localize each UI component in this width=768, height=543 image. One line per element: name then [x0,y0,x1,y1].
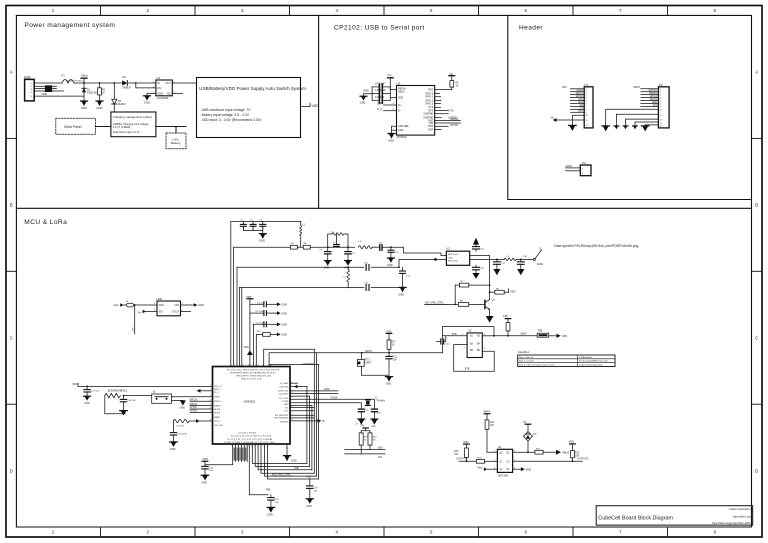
svg-text:P1/CLK/P7: P1/CLK/P7 [278,394,289,396]
svg-text:SPI_MISO/P11: SPI_MISO/P11 [275,415,289,417]
right arrow flag GND [557,334,568,338]
dashed wire charger to battery [156,126,186,128]
svg-text:TP0: TP0 [360,426,365,428]
ground at button [172,400,186,409]
svg-text:VDD: VDD [510,290,516,294]
svg-text:3: 3 [291,392,292,394]
svg-text:EN: EN [157,86,161,90]
svg-text:U2: U2 [446,246,450,250]
CTS wire [435,107,454,112]
svg-text:GND: GND [259,239,265,243]
Q1 collector vertical [489,256,491,300]
MCU chip U6 ASR6501 [213,362,315,444]
SUSPEND wire [435,115,457,119]
svg-text:C0B: C0B [562,334,567,338]
svg-text:BTB: BTB [452,333,457,336]
cap C3 [259,219,265,229]
svg-text:GND: GND [291,460,297,463]
svg-text:Vin: Vin [138,310,142,314]
svg-text:5V: 5V [523,421,526,424]
svg-text:4: 4 [241,446,242,448]
svg-text:GND: GND [282,304,288,307]
svg-text:SDI: SDI [159,311,163,314]
OUTPUT1 wire to U4 G pin [456,458,497,464]
U0TXD wire [435,123,461,127]
svg-text:GND: GND [267,514,273,517]
ground under CP2102 [388,134,395,143]
svg-text:KXB0T: KXB0T [364,362,372,364]
svg-text:Vbus: Vbus [81,74,88,78]
svg-text:RF1 Tant1: RF1 Tant1 [448,253,459,256]
MCU bottom: VDD flag [202,457,208,466]
svg-text:2: 2 [264,446,265,448]
shunt cap C8b [345,247,356,260]
inductor L1 vertical [300,222,306,248]
svg-text:SWDIO: SWDIO [190,404,198,406]
ground under C6 [324,261,331,270]
cap trio bottom rail [243,230,262,232]
cap C21 [386,353,398,376]
VDD flag above R17 [386,329,392,340]
cap row 3 pin wire [253,324,266,366]
svg-text:CTS: CTS [449,108,454,112]
net label ANT_PW_CTRL bottom [272,472,294,476]
inductor L3 horizontal [358,241,372,248]
svg-text:USB/Battery/VDD Power Supply A: USB/Battery/VDD Power Supply Auto Switch… [199,86,306,91]
diode D4 diamond [523,421,537,452]
svg-text:3: 3 [238,446,239,448]
svg-text:C: C [10,336,13,341]
svg-text:DSR: DSR [428,129,433,132]
ferrite bead FB1 on clock wire [537,331,549,338]
svg-text:2: 2 [210,389,211,391]
junction clock out [493,335,495,337]
junction node to charger [113,82,115,84]
net label ANT_PW_CTRL [425,301,448,305]
Q1 emitter to ground [486,309,494,322]
svg-text:B6U/P16: B6U/P16 [280,421,289,423]
svg-text:Header: Header [519,25,543,32]
svg-text:GND: GND [398,292,404,296]
svg-text:P3: P3 [582,161,586,165]
svg-text:XT32K: XT32K [330,397,337,399]
junction NRST node [361,352,363,354]
section titles [24,22,543,226]
right pin 4 wire [482,335,494,337]
svg-text:GND: GND [157,91,163,95]
svg-text:D_N: D_N [377,108,382,111]
svg-text:Solar Panel input: 11.7V: Solar Panel input: 11.7V [113,131,140,134]
svg-text:VDD: VDD [72,382,78,386]
ground small 3 [623,126,628,129]
junction L2 right [347,246,349,248]
P2 gnd wire 4 [635,122,658,126]
svg-text:4: 4 [268,365,269,367]
junction for EN branch [135,82,137,84]
junction under bead [134,304,136,306]
Solar Panel dashed box [56,118,96,134]
cap C2 [250,219,256,229]
svg-text:C5 10uF: C5 10uF [256,311,265,313]
wire ANT_SW_CTRL [425,303,459,305]
svg-text:Solar Panel: Solar Panel [64,125,82,129]
RTC crystal wire 2 [290,403,361,409]
wire VDD pin [390,97,396,99]
svg-text:P4_1 P4_0 VCC GND XT32K P3_7 P: P4_1 P4_0 VCC GND XT32K P3_7 P3_6 P3_5 P… [227,369,280,371]
clock out wire GBUF [494,335,537,337]
svg-text:GND1: GND1 [566,165,573,168]
inductor L7 row [174,419,213,428]
svg-text:5: 5 [243,446,244,448]
svg-text:GND: GND [282,312,288,315]
svg-text:GBUF: GBUF [520,333,527,336]
svg-text:6: 6 [210,407,211,409]
ground under C24 [201,475,209,484]
pin numbers X2 [464,333,487,349]
bundle vertical 5 [241,287,243,366]
svg-text:Step 3: 0.5B run? loop? / boot: Step 3: 0.5B run? loop? / boot? / user? [519,364,556,367]
svg-text:GND: GND [363,89,369,93]
svg-text:NC: NC [167,91,171,95]
svg-text:GND: GND [144,101,150,105]
svg-text:GND: GND [284,404,289,406]
svg-text:10K: 10K [454,454,459,456]
svg-text:C2_0 B2_1 P4 VD1: C2_0 B2_1 P4 VD1 [238,433,257,435]
pullup resistor R22 [368,431,377,450]
svg-text:FB0: FB0 [503,315,508,318]
svg-text:A: A [755,70,758,75]
svg-text:A: A [10,70,13,75]
FB resistor vertical with flag [503,315,511,337]
svg-text:R15: R15 [575,452,580,454]
LiPo Battery dashed box [166,133,186,149]
ground flag at cap bus [360,89,372,105]
svg-text:0: 0 [257,446,258,448]
svg-text:RF2 Tant2: RF2 Tant2 [448,259,459,262]
svg-text:GND: GND [282,324,288,327]
svg-text:GPIO8: GPIO8 [214,409,221,411]
cap C25 [268,495,280,508]
svg-text:OSC_DM: OSC_DM [214,425,223,427]
svg-text:Power management system: Power management system [24,22,115,29]
shunt cap C17 [398,266,411,287]
wire RFIO1 vertical [236,267,238,366]
svg-text:GND: GND [202,482,208,485]
svg-text:6: 6 [246,446,247,448]
svg-text:Battery: Battery [171,141,181,145]
wire C8 to corner [382,246,403,248]
wire ID from USB [34,90,63,92]
svg-text:NC: NC [373,439,377,441]
svg-text:P2: P2 [659,83,663,87]
wire L3 to C8 [372,246,380,248]
P3 wires [566,165,581,171]
svg-text:3: 3 [210,395,211,397]
svg-text:F1: F1 [62,73,66,77]
svg-text:VDD: VDD [244,346,249,349]
right pin stubs [435,93,440,95]
wire EN branch [136,83,156,88]
P1 ground [569,115,585,131]
svg-text:U0RX_C33: U0RX_C33 [278,391,289,393]
wire switch upper out to Q1 [470,255,490,257]
svg-text:XRES: XRES [214,397,220,399]
U0RXD wire [435,118,461,121]
VDD pull-up R15 [569,441,580,462]
LED VSS to GND flag [181,303,205,307]
bottom staircase wires [252,444,318,479]
svg-text:ANT_PW_CTRL: ANT_PW_CTRL [272,472,292,476]
load switch U4 [494,445,516,478]
svg-text:VDD: VDD [569,441,574,444]
cap C19 under L7 [170,421,187,442]
wire VBUS from USB [34,82,62,84]
shunt cap C12 [388,247,399,258]
load cap C22 [358,409,369,419]
svg-text:Charging management system: Charging management system [113,115,153,119]
vertical net label blobs [234,448,246,460]
decoupling cap C27 on VDD [84,386,100,397]
svg-text:10K: 10K [490,425,495,427]
P2 gnd wire 1 [606,109,659,126]
MCU left edge pin number ticks [210,385,211,422]
RST pull-up resistor R2 [435,72,460,90]
svg-text:C19 22uF: C19 22uF [177,433,187,435]
ferrite bead L6 [126,301,157,307]
D+ stub [377,102,396,105]
SDA wire [345,447,385,450]
svg-text:5: 5 [239,365,240,367]
svg-text:9: 9 [254,446,255,448]
ground under RF wire 2 end [398,287,406,296]
svg-text:USB: USB [24,75,32,79]
svg-text:GND REF: GND REF [398,125,409,128]
wire RFIO2 vertical [239,287,241,366]
svg-text:C4 1uF: C4 1uF [257,302,265,304]
MCU right edge pin number ticks [291,382,292,422]
ground large 1 [602,126,610,132]
svg-text:- Battery input voltage: 3.5 -: - Battery input voltage: 3.5 - 4.2V [200,113,250,117]
wire REGIN [390,89,396,91]
svg-text:VBUS: VBUS [398,90,405,93]
pull resistor R9 to VDD [489,288,516,294]
svg-text:NRST: NRST [633,86,640,89]
wire D2 to U1 [127,82,156,84]
SWD stub wires with labels [190,400,213,413]
VBAT flag [483,410,490,420]
svg-text:GND: GND [360,101,366,104]
svg-text:9: 9 [253,365,254,367]
svg-text:P3.4 CLK5: P3.4 CLK5 [279,398,290,400]
MCU bottom gnd pin [283,444,297,463]
svg-text:BG7208: BG7208 [498,474,508,478]
arrowhead on RF2 wire [433,258,437,262]
svg-text:L7 2mH: L7 2mH [176,426,184,428]
svg-text:GND: GND [398,129,404,132]
common mode choke L1 (black body) [45,85,57,92]
svg-text:1uF: 1uF [393,360,398,362]
ruler column ticks top [101,6,668,16]
RF rail wire [234,246,291,248]
svg-text:CAS2M05: CAS2M05 [157,96,169,100]
wire GND from USB [34,95,84,97]
svg-text:U4: U4 [498,445,502,449]
junction R7 leg [454,304,456,306]
ground under C25 [267,507,275,516]
pullup resistor R21 [359,431,368,454]
inductor L4 vertical between RF wires [343,266,349,288]
svg-text:SWCLK: SWCLK [214,401,222,403]
series cap C9b [379,242,383,250]
ground big under C28 [120,411,128,416]
LED DOUT stub [181,311,191,313]
svg-text:D: D [10,469,13,474]
svg-text:CubeCell Board Block Diagram: CubeCell Board Block Diagram [598,515,673,521]
RF switch U2 [446,246,469,265]
svg-text:MTT1: MTT1 [364,359,371,361]
svg-text:Vext: Vext [477,466,482,469]
resistor R6 [303,243,310,249]
svg-text:C28 104: C28 104 [127,400,136,402]
arrow flag into MCU pin 2 [197,389,213,393]
svg-text:C10 10uF: C10 10uF [375,89,386,92]
svg-text:GPIO.1: GPIO.1 [425,96,434,99]
svg-text:RST: RST [428,89,433,92]
wire R14 to U4 pin1 [487,451,497,453]
svg-text:GND: GND [448,257,453,259]
wire U1 NC stub [172,92,182,94]
svg-text:SWDIO: SWDIO [214,405,221,407]
connector P2 [658,83,669,128]
svg-text:1: 1 [210,385,211,387]
svg-text:FB0: FB0 [266,490,271,492]
left cap bus [371,87,373,100]
svg-text:GND: GND [388,139,394,143]
svg-text:htps:/heltec.org: htps:/heltec.org [733,515,751,519]
svg-text:GND: GND [386,383,392,386]
DTR wire [435,125,449,127]
wire node to D2 [100,82,123,84]
svg-text:Case-specific P/N:9Dxxty/URL9s: Case-specific P/N:9Dxxty/URL9sb_dxe/PCB9… [554,244,639,248]
I2C pullup flag [360,426,370,431]
svg-text:D2: D2 [122,75,126,79]
crystal block X2: outer top loop [443,327,495,353]
svg-text:U3: U3 [397,82,401,86]
ground under C29 [306,499,313,508]
svg-text:VDC: VDC [562,86,567,89]
svg-text:C4H_E33: C4H_E33 [280,386,290,388]
svg-text:VDD: VDD [203,457,209,461]
svg-text:ASR6501: ASR6501 [244,399,256,403]
wire down to D3 [113,83,115,99]
wire MCU top pin to right vertical A [264,349,315,366]
svg-text:VSS2 XO XI P3_1 C8: VSS2 XO XI P3_1 C8 [241,379,262,381]
MCU inner pin name texts left [214,386,223,427]
svg-text:SDA: SDA [378,447,383,450]
svg-text:GND: GND [387,263,393,267]
wire fuse to node Vbus [74,82,100,84]
right bundle verticals [307,349,319,479]
MCU top edge pin number ticks [231,365,270,367]
ground under U1 [144,96,151,105]
wire L5 to C18 [516,258,533,260]
lower loop of crystal [454,345,495,372]
svg-text:2WBLP: 2WBLP [122,86,131,90]
svg-text:P2_0 P2_1 P2_2 P2_3 VSS P1_7 P: P2_0 P2_1 P2_2 P2_3 VSS P1_7 P0_4 N2 [231,436,272,438]
svg-text:Vext: Vext [114,303,119,307]
ruler column ticks bottom [101,527,668,537]
VDD flag for RF cap rows [246,295,253,351]
svg-text:D: D [755,469,758,474]
svg-text:GND_1: GND_1 [214,389,222,391]
svg-text:VDD_IO: VDD_IO [214,386,222,388]
svg-text:1: 1 [291,382,292,384]
svg-text:3V3: 3V3 [653,104,658,107]
svg-text:GND: GND [42,92,48,96]
series diode D2 [122,75,131,90]
svg-text:GND: GND [84,402,90,405]
MCU top bundle vertical 2 from RF rail [233,247,235,366]
ground under cap trio [259,226,266,242]
svg-text:2: 2 [235,446,236,448]
dashed wire solar to charger [95,126,111,128]
svg-text:GPIO9: GPIO9 [214,412,221,414]
cap C9 0.1uF [372,82,390,89]
svg-text:XT32K: XT32K [282,401,289,403]
svg-text:1: 1 [255,365,256,367]
svg-text:R13: R13 [454,451,459,453]
ground under C22 [356,419,365,425]
ruler row ticks left [6,138,16,404]
wire to L5 [497,258,504,260]
svg-text:10K: 10K [575,455,580,457]
power flag Vbus [81,74,88,84]
bottom wire of reset loop [362,374,389,376]
long bottom pin to C25 [249,444,268,495]
svg-text:1: 1 [260,446,261,448]
push button S1 [152,390,172,403]
junction L2 left [327,246,329,248]
ground small 4 [633,126,638,129]
ground under reset loop [385,377,392,386]
svg-text:SCL: SCL [378,456,383,459]
svg-text:VDD: VDD [526,469,531,472]
cap C10 10uF [372,89,390,96]
svg-text:1K: 1K [392,345,395,347]
reset button S2 [357,353,371,376]
svg-text:IN: IN [157,81,160,85]
AutoRun table [518,350,615,366]
svg-text:C: C [755,336,758,341]
RTC crystal wire 1 [290,399,374,409]
svg-text:5: 5 [210,404,211,406]
svg-text:SUSPND: SUSPND [423,113,433,116]
svg-text:R17: R17 [392,342,397,344]
svg-text:GND: GND [198,303,204,307]
svg-text:GPIO8: GPIO8 [190,407,198,409]
junction R11/C28 [123,395,125,397]
svg-text:GND: GND [371,426,376,428]
ground under R1 [96,101,103,110]
wire junction to button S1 [124,395,152,397]
svg-text:ANT_PW_CTRL: ANT_PW_CTRL [425,301,445,305]
wire U1 OUT to description box [172,82,196,84]
P2 gnd wire 3 [626,119,659,126]
wire VDD row to MCU pin [205,444,233,465]
svg-text:8: 8 [210,419,211,421]
LED row: Vext flag [114,303,127,307]
cap C24 [202,466,214,475]
